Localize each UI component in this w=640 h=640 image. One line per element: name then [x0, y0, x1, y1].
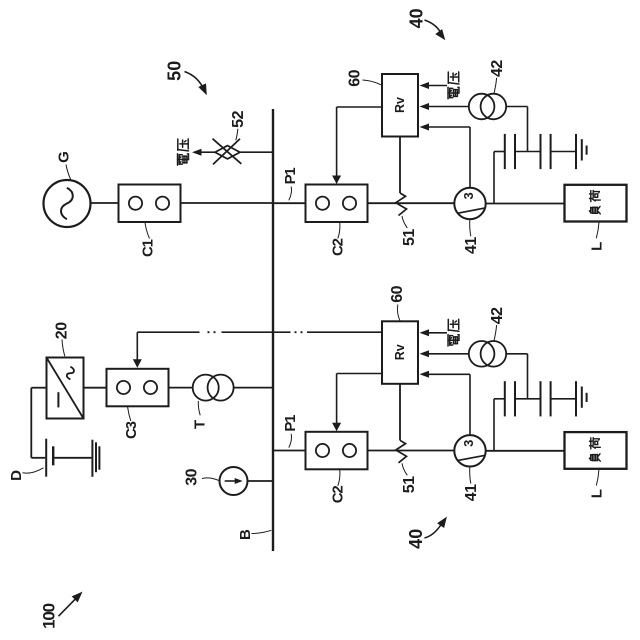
svg-text:40: 40: [406, 8, 426, 28]
svg-text:G: G: [56, 151, 73, 163]
svg-text:Rv: Rv: [393, 97, 407, 113]
svg-text:52: 52: [230, 110, 247, 127]
svg-text:30: 30: [183, 468, 200, 485]
svg-text:20: 20: [54, 322, 71, 339]
svg-text:C2: C2: [329, 238, 346, 256]
svg-text:50: 50: [164, 61, 184, 81]
svg-text:3: 3: [461, 192, 476, 199]
svg-text:3: 3: [461, 440, 476, 447]
svg-text:T: T: [192, 420, 209, 429]
svg-text:100: 100: [39, 603, 58, 629]
svg-text:41: 41: [463, 484, 480, 501]
svg-text:42: 42: [489, 60, 506, 77]
svg-text:51: 51: [401, 476, 418, 493]
svg-text:51: 51: [401, 229, 418, 246]
svg-text:P1: P1: [282, 415, 299, 432]
svg-text:42: 42: [489, 307, 506, 324]
svg-text:D: D: [8, 470, 25, 481]
svg-text:C1: C1: [139, 239, 156, 257]
svg-text:P1: P1: [282, 168, 299, 185]
svg-text:60: 60: [346, 69, 363, 86]
svg-text:C3: C3: [123, 421, 140, 439]
svg-text:L: L: [589, 489, 606, 498]
svg-text:Rv: Rv: [393, 344, 407, 360]
svg-text:L: L: [589, 242, 606, 251]
svg-text:B: B: [237, 529, 254, 540]
svg-text:C2: C2: [329, 486, 346, 504]
svg-text:41: 41: [463, 237, 480, 254]
svg-text:40: 40: [406, 529, 426, 549]
svg-text:60: 60: [389, 285, 406, 302]
